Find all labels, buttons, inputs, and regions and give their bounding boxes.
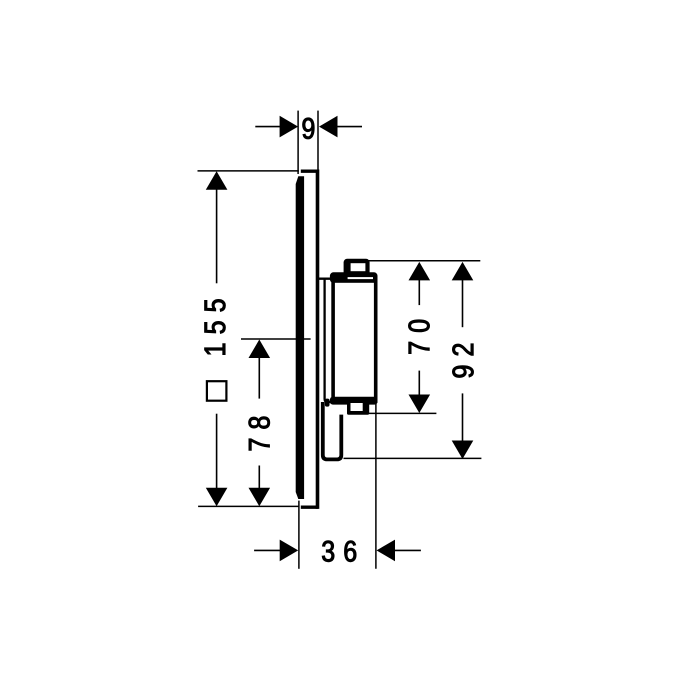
extension line mid 78 — [241, 338, 311, 340]
dim 36 left arrow — [280, 540, 299, 562]
sleeve behind knob — [318, 279, 331, 402]
dim 92 line lower — [462, 393, 464, 441]
extension line 9 right — [317, 111, 319, 170]
text 36 — [322, 541, 356, 562]
knob top flange — [330, 272, 378, 283]
dim 9 right arrow — [319, 116, 338, 138]
sleeve bottom step — [325, 399, 330, 407]
dim 70 line upper — [418, 279, 420, 305]
dim 78 down arrow — [249, 488, 271, 507]
dim 78 line upper — [258, 357, 260, 399]
dim 36 right arrow — [377, 540, 396, 562]
dim 78 up arrow — [249, 340, 271, 359]
dim 155 up arrow — [206, 171, 228, 190]
dim 92 line upper — [462, 279, 464, 327]
square symbol — [207, 381, 227, 401]
dim 36 left line — [254, 549, 280, 551]
dim 92 up arrow — [452, 262, 474, 281]
dim 9 left arrow — [280, 116, 299, 138]
extension line 92 bottom — [344, 457, 482, 459]
extension line 36 left — [298, 501, 300, 569]
text 155 — [205, 300, 226, 355]
extension line 36 right — [375, 404, 377, 569]
dim 9 left line — [255, 126, 281, 128]
plate back bar — [296, 176, 304, 499]
dim 70 line lower — [418, 371, 420, 396]
dim 92 down arrow — [452, 441, 474, 460]
dim 155 line upper — [216, 189, 218, 283]
extension line 155 bottom — [198, 505, 299, 507]
dim 70 down arrow — [409, 395, 431, 414]
extension line 70 bottom — [369, 412, 436, 414]
knob body — [333, 281, 376, 401]
text 70 — [409, 320, 430, 354]
knob bottom cap — [347, 403, 369, 415]
text 9 — [303, 118, 315, 139]
knob top button cap — [344, 259, 370, 276]
text 78 — [249, 417, 270, 451]
dim 70 up arrow — [409, 262, 431, 281]
dim 36 right line — [394, 549, 421, 551]
dim 155 down arrow — [206, 488, 228, 507]
dim 155 line lower — [216, 414, 218, 489]
extension line 70/92 top — [368, 260, 480, 262]
extension line 9 left — [297, 111, 299, 174]
extension line 155 top — [198, 170, 299, 172]
dim 9 right line — [336, 126, 362, 128]
knob bottom flange — [330, 397, 378, 405]
lower channel piece — [323, 402, 342, 459]
dim 78 line lower — [258, 466, 260, 489]
plate outline — [301, 171, 318, 507]
text 92 — [453, 344, 474, 377]
